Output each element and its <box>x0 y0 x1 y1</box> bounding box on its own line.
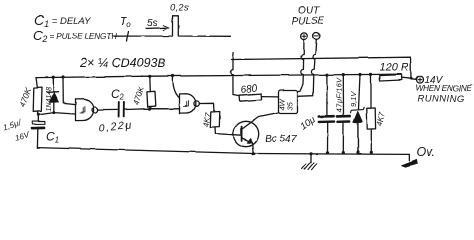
svg-text:1,5μ/: 1,5μ/ <box>2 118 22 132</box>
terminal minus <box>313 33 320 40</box>
svg-text:Bc 547: Bc 547 <box>265 134 297 145</box>
capacitor C2 <box>119 102 124 117</box>
svg-text:C2 = PULSE LENGTH: C2 = PULSE LENGTH <box>33 28 117 44</box>
svg-text:4K7: 4K7 <box>375 111 387 127</box>
wire VDD to gate2 input A <box>173 76 180 98</box>
wire terminal plus to box (hops rails) <box>298 40 304 92</box>
resistor R5 680 <box>233 83 279 101</box>
svg-text:2× ¼ CD4093B: 2× ¼ CD4093B <box>79 56 166 70</box>
svg-text:C2: C2 <box>111 87 125 102</box>
timing tick T0 <box>120 16 132 41</box>
label OUT PULSE <box>292 6 325 28</box>
resistor R6 4K7 (zener shunt) <box>367 74 387 152</box>
label 2x 1/4 CD4093B <box>79 56 166 70</box>
wire terminal minus to box (hops rails) <box>298 39 316 96</box>
svg-text:47μF/16V: 47μF/16V <box>335 77 344 113</box>
NAND gate U1b <box>180 94 200 114</box>
output device box 4W 35 <box>278 91 298 114</box>
wire gate2 output to R4 <box>199 103 214 111</box>
svg-text:470K: 470K <box>17 86 33 108</box>
svg-text:RUNNING: RUNNING <box>418 94 465 105</box>
diode D1 1N4148 <box>46 77 59 112</box>
svg-text:10μ: 10μ <box>298 114 318 133</box>
wire VDD to gate1 input A <box>63 77 76 105</box>
resistor R4 4K7 (base) <box>202 111 220 127</box>
label 14V <box>425 75 444 86</box>
note C1 = DELAY <box>34 12 91 29</box>
svg-text:470K: 470K <box>131 85 146 106</box>
wire C2 to gate2 input <box>124 108 180 111</box>
svg-text:C1 = DELAY: C1 = DELAY <box>34 12 91 29</box>
svg-text:WHEN ENGINE: WHEN ENGINE <box>416 83 473 93</box>
svg-text:PULSE: PULSE <box>292 16 325 27</box>
terminal +14V <box>417 76 424 83</box>
timing waveform baseline with pulse <box>114 16 231 37</box>
svg-text:OUT: OUT <box>298 6 320 17</box>
terminal plus <box>301 33 308 40</box>
svg-text:680: 680 <box>240 83 258 96</box>
label 0v. <box>417 145 436 159</box>
upper 14V rail to 680/out stage <box>230 53 411 95</box>
note C2 = PULSE LENGTH <box>33 28 117 44</box>
capacitor C4 47uF/16V <box>335 75 350 153</box>
label 0,2s <box>170 3 190 14</box>
label 1,5u/16V <box>2 118 31 143</box>
svg-text:9,1V: 9,1V <box>349 91 358 107</box>
zener D2 9,1V <box>349 75 364 153</box>
svg-text:120 R: 120 R <box>380 62 409 74</box>
label 0,22u <box>98 120 133 135</box>
label 5s with arrow <box>146 18 169 30</box>
svg-text:1N4148: 1N4148 <box>46 87 53 112</box>
svg-text:5s: 5s <box>147 18 158 29</box>
ground (solid wedge) at 0V <box>402 154 418 167</box>
capacitor C1 <box>32 115 45 148</box>
label WHEN ENGINE RUNNING <box>416 83 473 105</box>
resistor R7 120R <box>380 62 417 82</box>
svg-text:0,2s: 0,2s <box>170 3 190 14</box>
label BC 547 <box>265 134 297 145</box>
NAND gate U1a <box>76 99 98 120</box>
transistor Q1 BC547 <box>233 113 278 154</box>
0V rail (bottom) <box>37 148 409 155</box>
label C2 <box>111 87 125 102</box>
svg-text:To: To <box>120 16 132 29</box>
resistor R3 470K (pulse) <box>131 76 155 108</box>
svg-text:35: 35 <box>286 101 295 110</box>
label C1 <box>46 130 59 145</box>
capacitor C3 10u <box>298 75 334 153</box>
svg-text:Ov.: Ov. <box>417 145 436 159</box>
node wire RC junction to gate input <box>38 113 76 115</box>
svg-text:16V: 16V <box>14 130 31 143</box>
svg-text:0,22μ: 0,22μ <box>98 120 133 135</box>
wire R4 to base <box>215 127 242 135</box>
svg-text:4K7: 4K7 <box>202 111 213 127</box>
VDD rail (top main rail) <box>36 74 401 77</box>
ground (hatched) <box>302 154 317 171</box>
resistor R1 470K (timing) <box>17 78 42 115</box>
svg-text:C1: C1 <box>46 130 59 145</box>
wire gate1 output to C2 <box>98 108 118 110</box>
